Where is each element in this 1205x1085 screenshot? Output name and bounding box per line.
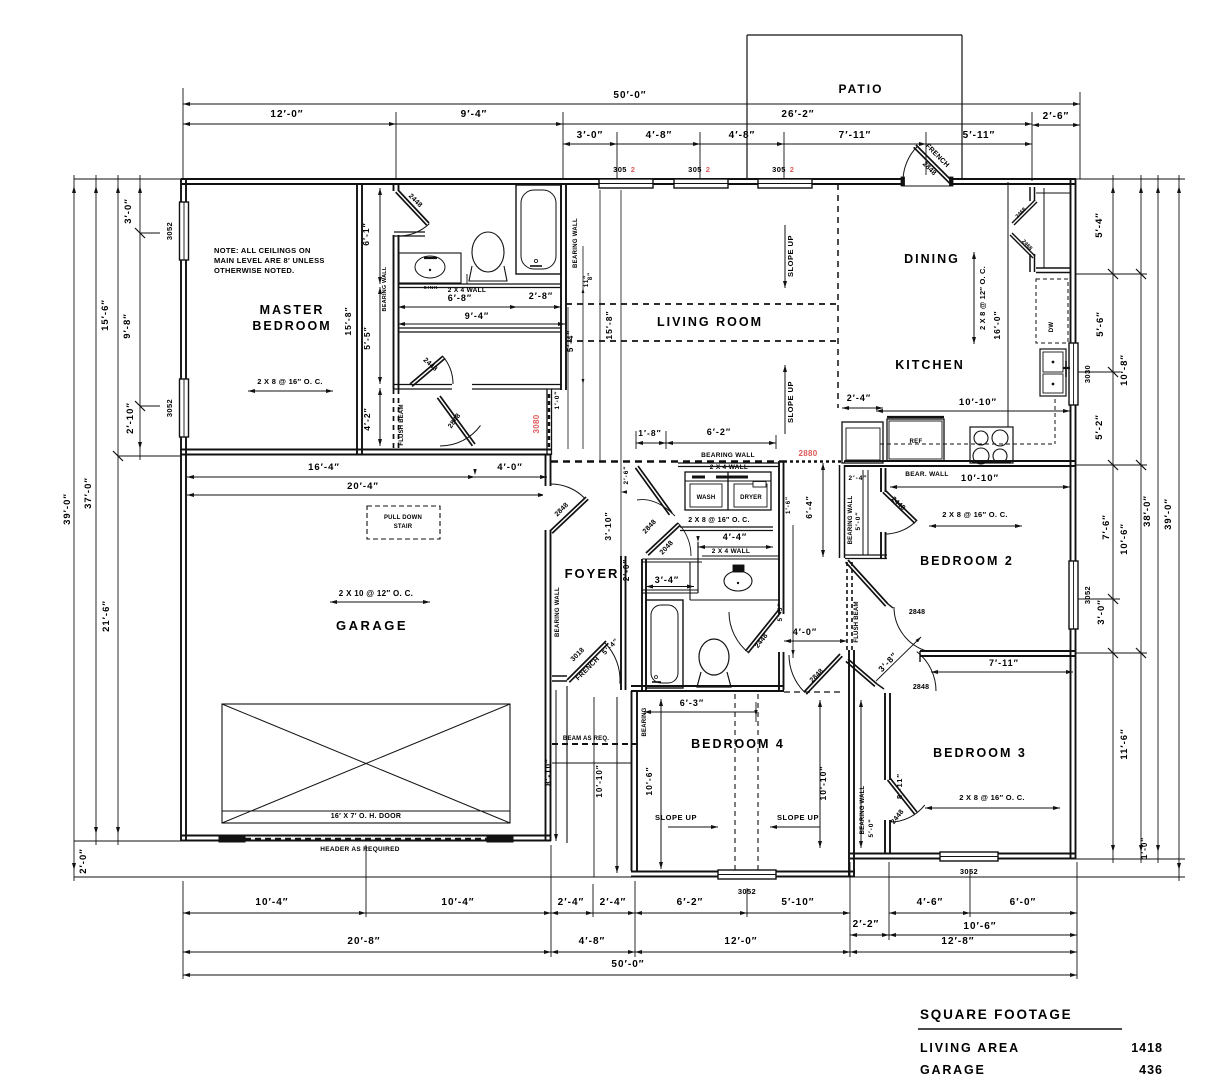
hall bath left wall — [642, 593, 646, 690]
svg-text:SLOPE UP: SLOPE UP — [777, 813, 819, 822]
svg-text:8′-10″: 8′-10″ — [544, 758, 553, 786]
svg-text:2 X 10 @ 12″ O. C.: 2 X 10 @ 12″ O. C. — [339, 589, 413, 598]
svg-text:15′-6″: 15′-6″ — [100, 299, 111, 331]
bedroom4 left wall — [632, 691, 638, 871]
svg-text:3030: 3030 — [1083, 365, 1092, 383]
garage-foyer door 2848 — [550, 497, 588, 533]
svg-text:5′-5″: 5′-5″ — [362, 326, 372, 349]
svg-text:10′-10″: 10′-10″ — [595, 764, 604, 797]
garage door header dashed — [225, 838, 507, 840]
bedroom4 right wall — [849, 650, 854, 877]
wall with 3080 front door — [547, 389, 552, 455]
french door top opening — [902, 175, 952, 188]
porch mid line — [593, 697, 595, 877]
window 3052 left-1 — [180, 202, 189, 260]
svg-text:BEDROOM 2: BEDROOM 2 — [920, 554, 1014, 568]
svg-text:2′-4″: 2′-4″ — [847, 393, 871, 403]
svg-text:15′-8″: 15′-8″ — [604, 310, 614, 339]
svg-text:2: 2 — [706, 165, 711, 174]
swing — [440, 425, 481, 446]
svg-text:4′-4″: 4′-4″ — [723, 532, 747, 542]
door 2848 hall to bed4 — [804, 654, 842, 694]
svg-text:2′-10″: 2′-10″ — [125, 402, 136, 434]
svg-text:21′-6″: 21′-6″ — [101, 600, 112, 632]
svg-text:2′-6″: 2′-6″ — [1043, 111, 1070, 122]
svg-text:1′-6″: 1′-6″ — [786, 496, 792, 514]
svg-text:16′-0″: 16′-0″ — [992, 310, 1002, 339]
svg-text:3′-10″: 3′-10″ — [603, 511, 613, 540]
svg-text:2′-4″: 2′-4″ — [848, 475, 867, 482]
svg-text:6′-3″: 6′-3″ — [680, 698, 704, 708]
svg-text:8″: 8″ — [588, 272, 594, 280]
bed3 closet door 2448 — [888, 778, 918, 814]
svg-text:15′-8″: 15′-8″ — [343, 306, 353, 335]
dishwasher — [1036, 279, 1068, 343]
svg-text:SQUARE FOOTAGE: SQUARE FOOTAGE — [920, 1007, 1072, 1022]
svg-text:16′-4″: 16′-4″ — [308, 462, 340, 473]
svg-text:2′-4″: 2′-4″ — [558, 897, 585, 908]
svg-text:10′-6″: 10′-6″ — [644, 766, 654, 795]
svg-text:3052: 3052 — [960, 867, 978, 876]
garage bottom wall — [181, 836, 551, 841]
foyer french door 3018 — [567, 641, 608, 682]
svg-text:STAIR: STAIR — [394, 524, 413, 530]
svg-text:FLUSH BEAM: FLUSH BEAM — [399, 404, 405, 445]
garage door X-box — [222, 704, 510, 823]
window 3052 top-3 — [758, 179, 812, 188]
master bath vanity — [399, 253, 461, 283]
kitchen island — [842, 422, 883, 463]
svg-text:6′-2″: 6′-2″ — [677, 897, 704, 908]
door leaf 2048 — [646, 523, 680, 555]
svg-text:4′-0″: 4′-0″ — [793, 627, 817, 637]
bath door 2448 in right wall — [746, 610, 782, 653]
svg-text:2848: 2848 — [913, 684, 929, 691]
flush beam dashed wall — [393, 389, 395, 449]
3080 door dashed — [548, 394, 550, 450]
svg-text:3052: 3052 — [165, 222, 174, 240]
svg-text:5′-6″: 5′-6″ — [1095, 311, 1106, 337]
svg-text:37′-0″: 37′-0″ — [83, 477, 94, 509]
door leaf 2448 master — [396, 190, 429, 225]
svg-text:MAIN LEVEL ARE 8′ UNLESS: MAIN LEVEL ARE 8′ UNLESS — [214, 256, 325, 265]
kitchen counter — [1007, 182, 1009, 427]
bed3 closet door opening — [882, 780, 893, 820]
svg-text:BEAM AS REQ.: BEAM AS REQ. — [563, 736, 609, 742]
svg-text:20′-8″: 20′-8″ — [347, 936, 380, 947]
svg-text:5′-4″: 5′-4″ — [1094, 212, 1105, 238]
window 3052 bedroom4 — [718, 870, 776, 879]
svg-text:3′-0″: 3′-0″ — [1096, 599, 1107, 625]
svg-text:2880: 2880 — [799, 449, 818, 458]
3-8 dim diagonal — [876, 637, 921, 681]
window 3052 left-2 — [180, 379, 189, 437]
svg-text:3′-4″: 3′-4″ — [655, 575, 679, 585]
svg-text:KITCHEN: KITCHEN — [895, 358, 965, 372]
svg-text:11′-6″: 11′-6″ — [1119, 728, 1130, 759]
svg-text:10′-10″: 10′-10″ — [959, 397, 997, 408]
svg-text:12′-0″: 12′-0″ — [270, 109, 303, 120]
closet 3-4 — [642, 590, 698, 593]
svg-text:50′-0″: 50′-0″ — [613, 90, 646, 101]
window 3030 kitchen — [1069, 343, 1078, 405]
svg-text:5′-0″: 5′-0″ — [855, 511, 862, 530]
svg-text:3080: 3080 — [532, 414, 541, 433]
svg-text:16′ X 7′ O. H. DOOR: 16′ X 7′ O. H. DOOR — [331, 813, 402, 820]
svg-text:305: 305 — [688, 165, 702, 174]
svg-text:2 X 8 @ 16″ O. C.: 2 X 8 @ 16″ O. C. — [688, 517, 750, 524]
top dim row 3 — [616, 132, 618, 179]
svg-text:DRYER: DRYER — [740, 495, 762, 501]
svg-text:BEDROOM 3: BEDROOM 3 — [933, 746, 1027, 760]
svg-text:50′-0″: 50′-0″ — [611, 959, 644, 970]
svg-text:38′-0″: 38′-0″ — [1142, 495, 1153, 527]
svg-text:BEARING WALL: BEARING WALL — [848, 496, 854, 545]
svg-text:39′-0″: 39′-0″ — [1163, 498, 1174, 530]
master tub — [516, 185, 561, 274]
bed2 closet — [881, 468, 886, 558]
master closet bottom wall L — [394, 385, 452, 390]
bed3 closet dims — [860, 700, 862, 848]
svg-text:1′-0″: 1′-0″ — [554, 390, 561, 409]
patio outline — [747, 34, 962, 36]
svg-text:6′-2″: 6′-2″ — [707, 427, 731, 437]
svg-text:2848: 2848 — [909, 609, 925, 616]
svg-text:SINK: SINK — [424, 285, 439, 290]
master bath right bearing wall — [561, 185, 566, 390]
vanity counter — [690, 599, 779, 601]
porch line — [552, 762, 631, 764]
svg-text:DINING: DINING — [904, 252, 960, 266]
svg-text:2: 2 — [631, 165, 636, 174]
svg-text:1′-8″: 1′-8″ — [638, 428, 661, 438]
master vertical dims — [379, 188, 381, 284]
svg-text:DW: DW — [1049, 322, 1055, 333]
master bath left wall — [394, 235, 399, 389]
svg-text:3′-0″: 3′-0″ — [577, 130, 604, 141]
svg-text:2′-4″: 2′-4″ — [600, 897, 627, 908]
right extension columns — [1112, 175, 1114, 863]
svg-text:2: 2 — [790, 165, 795, 174]
svg-text:305: 305 — [772, 165, 786, 174]
svg-text:1418: 1418 — [1131, 1041, 1163, 1055]
garage-foyer door opening — [543, 486, 554, 530]
slab edge line — [74, 876, 1185, 878]
bed2 closet door 2448 — [883, 490, 917, 523]
svg-text:9′-4″: 9′-4″ — [461, 109, 488, 120]
svg-text:2 X 4 WALL: 2 X 4 WALL — [712, 548, 750, 555]
swing — [443, 356, 453, 384]
svg-text:10′-10″: 10′-10″ — [961, 473, 999, 484]
svg-text:SLOPE UP: SLOPE UP — [786, 381, 795, 423]
svg-text:FLUSH BEAM: FLUSH BEAM — [854, 601, 860, 642]
svg-text:2 X 8 @ 16″ O. C.: 2 X 8 @ 16″ O. C. — [257, 377, 323, 386]
wc wall stub — [394, 232, 425, 236]
svg-text:BEDROOM: BEDROOM — [252, 319, 331, 333]
svg-text:305: 305 — [613, 165, 627, 174]
svg-text:6′-4″: 6′-4″ — [804, 495, 814, 518]
svg-text:2′-8″: 2′-8″ — [529, 291, 553, 301]
closet door 2448 — [410, 356, 445, 386]
fridge — [887, 419, 944, 461]
svg-text:2′-0″: 2′-0″ — [622, 559, 631, 581]
svg-text:2 X 4 WALL: 2 X 4 WALL — [710, 464, 748, 471]
dashed counter line — [880, 443, 1055, 445]
svg-text:9′-8″: 9′-8″ — [122, 313, 133, 339]
svg-text:1′-0″: 1′-0″ — [1140, 837, 1149, 859]
hall bath tub — [646, 600, 683, 688]
4-4 dim — [698, 546, 773, 548]
window 3052 top-2 — [674, 179, 728, 188]
svg-text:9′-4″: 9′-4″ — [465, 311, 489, 321]
svg-text:5′-5″: 5′-5″ — [777, 602, 784, 621]
top dim row 50-0 — [182, 88, 184, 179]
foyer right wall — [621, 556, 626, 690]
svg-text:BEARING WALL: BEARING WALL — [555, 587, 561, 637]
svg-text:2 X 8 @ 12″ O. C.: 2 X 8 @ 12″ O. C. — [978, 266, 987, 330]
svg-text:4′-2″: 4′-2″ — [362, 407, 372, 430]
exterior left wall — [181, 179, 186, 841]
door 2848 lower — [917, 652, 936, 691]
bedroom3 bottom wall — [850, 854, 1076, 859]
svg-text:4′-6″: 4′-6″ — [917, 897, 944, 908]
pull down stair — [367, 506, 440, 539]
svg-text:GARAGE: GARAGE — [920, 1063, 986, 1077]
svg-text:BEARING WALL: BEARING WALL — [701, 452, 755, 459]
svg-text:BEARING WALL: BEARING WALL — [860, 786, 866, 835]
garage-bottom connector — [74, 840, 181, 842]
svg-text:26′-2″: 26′-2″ — [781, 109, 814, 120]
cased opening dashed — [784, 691, 843, 693]
svg-text:MASTER: MASTER — [260, 303, 325, 317]
right dim ticks — [1111, 186, 1115, 193]
master toilet — [472, 232, 504, 272]
svg-text:7′-6″: 7′-6″ — [1101, 514, 1112, 540]
stove — [970, 427, 1013, 463]
svg-text:6′-8″: 6′-8″ — [448, 293, 472, 303]
svg-text:12′-8″: 12′-8″ — [941, 936, 974, 947]
dims 1-8 / 6-2 — [636, 442, 666, 444]
svg-text:FOYER: FOYER — [565, 566, 620, 581]
svg-text:OTHERWISE NOTED.: OTHERWISE NOTED. — [214, 266, 295, 275]
svg-text:2′-6″: 2′-6″ — [623, 465, 630, 484]
window 3052 bedroom2 — [1069, 561, 1078, 629]
kitchen top dim — [876, 410, 1070, 412]
svg-text:BEDROOM 4: BEDROOM 4 — [691, 737, 785, 751]
pantry corner — [1030, 187, 1035, 201]
window 3052 bedroom3 — [940, 852, 998, 861]
bath bottom / bed4 top wall — [631, 686, 784, 691]
left extension columns — [73, 175, 75, 881]
french door top 2848 — [914, 145, 952, 183]
svg-text:6′-1″: 6′-1″ — [361, 222, 371, 245]
master bath 2x4 wall — [398, 284, 561, 288]
master right wall — [357, 185, 362, 455]
master bath dims — [398, 306, 517, 308]
porch left line — [566, 686, 568, 843]
diag wall upper — [846, 560, 888, 606]
svg-text:3052: 3052 — [1083, 586, 1092, 604]
svg-text:5′-0″: 5′-0″ — [868, 818, 875, 837]
door swing — [398, 224, 429, 236]
svg-text:5′-10″: 5′-10″ — [781, 897, 814, 908]
foyer dims — [621, 490, 627, 493]
chamfer wall 2848 door — [635, 466, 672, 515]
master closet bottom wall R — [472, 385, 561, 390]
bed2 bottom wall — [920, 651, 1076, 656]
svg-text:LIVING ROOM: LIVING ROOM — [657, 315, 763, 329]
master bottom / garage top wall — [181, 450, 551, 455]
svg-text:BEARING WALL: BEARING WALL — [382, 266, 388, 311]
exterior right wall — [1071, 179, 1076, 859]
garage interior dims — [187, 476, 475, 478]
window 3052 top-1 — [599, 179, 653, 188]
bedroom4 bottom wall — [631, 872, 855, 877]
garage right wall — [546, 455, 551, 841]
svg-text:2′-2″: 2′-2″ — [853, 919, 880, 930]
svg-text:GARAGE: GARAGE — [336, 618, 408, 633]
svg-text:5′-11″: 5′-11″ — [963, 130, 996, 141]
svg-text:7′-11″: 7′-11″ — [989, 658, 1019, 668]
svg-text:PULL DOWN: PULL DOWN — [384, 515, 422, 521]
kitchen / bedroom2 wall — [845, 461, 1076, 466]
door 2848 upper — [894, 607, 927, 651]
dashed ceiling lines living — [566, 303, 838, 305]
hall bath toilet — [699, 639, 729, 675]
svg-text:10′-6″: 10′-6″ — [963, 921, 996, 932]
closet 3-4 top — [642, 559, 702, 562]
bed3 left wall — [885, 693, 890, 853]
svg-text:436: 436 — [1139, 1063, 1163, 1077]
svg-text:LIVING AREA: LIVING AREA — [920, 1041, 1020, 1055]
bath door opening — [776, 614, 787, 652]
svg-text:2′-0″: 2′-0″ — [78, 848, 89, 874]
left dim ticks — [72, 186, 76, 193]
beam as req dashed — [552, 743, 637, 745]
bottom dim rows — [182, 881, 184, 979]
laundry top wall — [678, 463, 779, 467]
bed2 closet door opening — [878, 492, 890, 532]
exterior top wall — [181, 179, 1076, 184]
svg-text:2 X 8 @ 16″ O. C.: 2 X 8 @ 16″ O. C. — [959, 793, 1025, 802]
svg-text:5′-4″: 5′-4″ — [566, 330, 575, 352]
svg-text:SLOPE UP: SLOPE UP — [786, 235, 795, 277]
svg-text:HEADER AS REQUIRED: HEADER AS REQUIRED — [320, 846, 400, 853]
washer dryer — [685, 472, 771, 510]
svg-text:7′-11″: 7′-11″ — [839, 130, 872, 141]
svg-text:5′-2″: 5′-2″ — [1094, 414, 1105, 440]
svg-text:10′-4″: 10′-4″ — [255, 897, 288, 908]
svg-text:BEARING: BEARING — [642, 707, 648, 736]
6-4 dim — [822, 463, 824, 557]
svg-text:4′-0″: 4′-0″ — [497, 462, 523, 473]
svg-text:PATIO: PATIO — [839, 82, 884, 96]
diag wall lower — [846, 659, 877, 686]
vanity wall 2x4 — [702, 556, 779, 559]
svg-text:BEAR. WALL: BEAR. WALL — [905, 471, 948, 478]
kitchen sink — [1040, 349, 1066, 396]
svg-text:39′-0″: 39′-0″ — [62, 493, 73, 525]
svg-text:3052: 3052 — [165, 399, 174, 417]
svg-text:BEARING WALL: BEARING WALL — [573, 218, 579, 268]
svg-text:10′-10″: 10′-10″ — [818, 766, 828, 801]
svg-text:10′-8″: 10′-8″ — [1119, 354, 1130, 386]
master closet shelf — [398, 328, 561, 332]
svg-text:4′-8″: 4′-8″ — [579, 936, 606, 947]
4-0 dim hall — [784, 640, 847, 642]
hall door 2848 — [437, 396, 475, 446]
laundry bottom wall — [680, 527, 773, 531]
bed2 closet left wall — [840, 465, 845, 558]
svg-text:12′-0″: 12′-0″ — [724, 936, 757, 947]
svg-text:6′-0″: 6′-0″ — [1010, 897, 1037, 908]
svg-text:2 X 8 @ 16″ O. C.: 2 X 8 @ 16″ O. C. — [942, 510, 1008, 519]
laundry right wall — [779, 461, 784, 690]
top-left connector — [74, 178, 181, 180]
svg-text:10′-4″: 10′-4″ — [441, 897, 474, 908]
svg-text:20′-4″: 20′-4″ — [347, 481, 379, 492]
top dim row 2 — [395, 112, 397, 179]
svg-text:3′-0″: 3′-0″ — [123, 198, 134, 224]
svg-text:NOTE: ALL CEILINGS ON: NOTE: ALL CEILINGS ON — [214, 246, 311, 255]
svg-text:4′-8″: 4′-8″ — [646, 130, 673, 141]
svg-text:4′-8″: 4′-8″ — [729, 130, 756, 141]
svg-text:WASH: WASH — [697, 495, 716, 501]
svg-text:10′-6″: 10′-6″ — [1119, 523, 1130, 555]
svg-text:3052: 3052 — [738, 887, 756, 896]
dim cols right of bath — [582, 246, 584, 449]
bearing wall dashed — [551, 460, 784, 463]
